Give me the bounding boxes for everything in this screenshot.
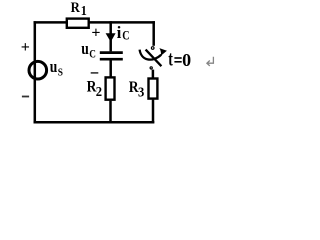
wire switch to R3 xyxy=(152,70,155,79)
svg-text:i: i xyxy=(117,23,122,42)
wire bottom xyxy=(34,121,155,124)
svg-text:+: + xyxy=(91,25,100,42)
svg-text:+: + xyxy=(21,39,30,56)
voltage source us circle xyxy=(29,61,47,79)
svg-text:t: t xyxy=(168,47,173,71)
wire middle column below R2 xyxy=(109,101,112,124)
svg-text:R: R xyxy=(71,0,81,16)
switch bottom contact xyxy=(150,67,152,69)
svg-text:2: 2 xyxy=(96,84,103,100)
svg-text:S: S xyxy=(58,67,63,79)
svg-text:u: u xyxy=(50,58,58,77)
resistor R3 xyxy=(149,79,158,99)
switch top contact xyxy=(151,47,154,50)
switch closing arrow arc xyxy=(140,50,162,60)
capacitor C xyxy=(100,51,123,54)
svg-text:3: 3 xyxy=(138,84,145,100)
wire below R3 xyxy=(152,100,155,124)
switch blade xyxy=(146,50,162,67)
svg-text:0: 0 xyxy=(182,50,191,70)
paragraph return mark xyxy=(207,57,214,66)
resistor R1 xyxy=(67,19,89,28)
wire top xyxy=(34,21,156,24)
minus cap xyxy=(91,72,99,74)
wire middle column upper xyxy=(109,21,112,51)
svg-text:1: 1 xyxy=(81,4,87,19)
resistor R2 xyxy=(106,77,115,99)
wire middle column between cap and R2 xyxy=(109,60,112,77)
svg-text:C: C xyxy=(89,48,96,60)
wire right vertical stub above switch xyxy=(152,21,155,46)
minus source xyxy=(22,96,29,98)
switch arrow head xyxy=(159,48,167,56)
svg-text:C: C xyxy=(122,28,129,42)
wire left vertical xyxy=(34,21,37,123)
svg-text:u: u xyxy=(81,40,89,59)
current arrow iC xyxy=(106,33,116,42)
